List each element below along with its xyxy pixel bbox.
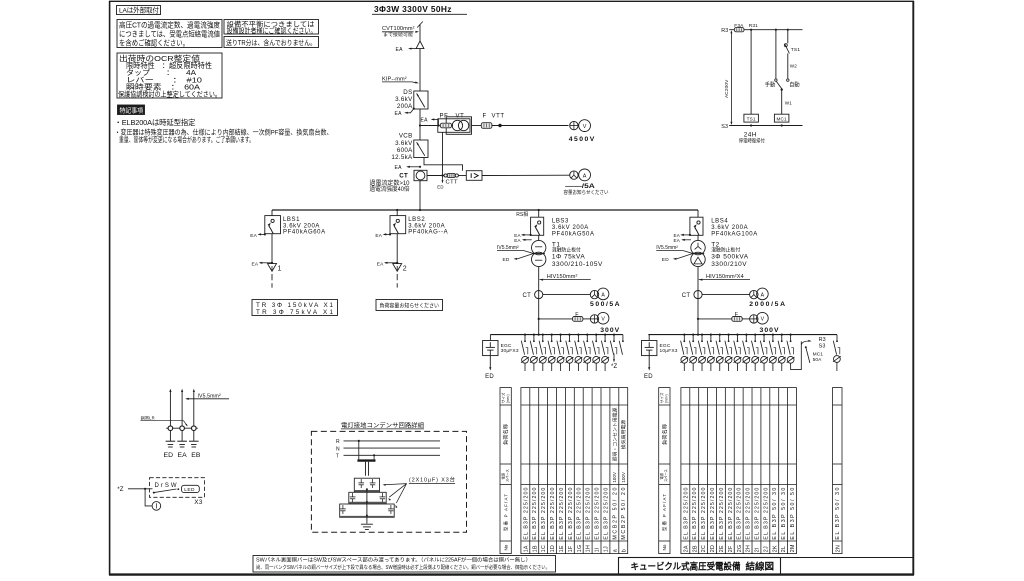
svg-text:*Z: *Z [611, 364, 618, 370]
svg-text:MCB2P 50/ 20: MCB2P 50/ 20 [621, 488, 627, 540]
svg-text:高圧CTの過電流定数、過電流強度: 高圧CTの過電流定数、過電流強度 [119, 20, 220, 30]
heading: special notes (tokki jiko) [118, 105, 145, 115]
svg-text:T: T [336, 454, 339, 460]
note box: OCR settings at shipment [117, 53, 222, 98]
svg-text:電灯接地コンデンサ回路詳細: 電灯接地コンデンサ回路詳細 [341, 421, 424, 429]
svg-text:2H: 2H [746, 545, 752, 552]
svg-text:MC1: MC1 [776, 116, 787, 121]
svg-text:LAは外部取付: LAは外部取付 [119, 6, 159, 15]
svg-text:2I: 2I [755, 547, 761, 552]
svg-text:送りTR分は、含んでおりません。: 送りTR分は、含んでおりません。 [226, 38, 316, 47]
svg-text:CT: CT [682, 293, 691, 299]
shield plate between windings [692, 253, 704, 255]
svg-text:EL B3P 225/200: EL B3P 225/200 [763, 488, 769, 540]
ELB branch breaker 1G [577, 334, 579, 336]
svg-text:200A: 200A [397, 103, 413, 110]
pointer arrows to capacitor groups [384, 484, 407, 485]
svg-text:EL B3P 225/200: EL B3P 225/200 [577, 488, 583, 540]
svg-text:10µFX3: 10µFX3 [660, 348, 678, 354]
svg-text:TS1: TS1 [747, 116, 756, 121]
svg-text:MCB2P 50/ 20: MCB2P 50/ 20 [612, 488, 618, 540]
ammeter selector switch [590, 290, 598, 298]
capacitor group 2 [349, 492, 386, 503]
wire: bus drop to LBS1 [271, 210, 273, 216]
svg-text:につきましては、受電点短絡電流値: につきましては、受電点短絡電流値 [119, 29, 220, 39]
svg-text:負荷名称: 負荷名称 [660, 424, 668, 445]
svg-text:W1: W1 [785, 101, 792, 106]
svg-text:N: N [336, 446, 340, 452]
svg-text:3.6kV 200A: 3.6kV 200A [408, 223, 445, 229]
earth ED below CTT junction [442, 176, 444, 182]
ELB branch breaker 2A [683, 334, 685, 336]
svg-text:2F: 2F [728, 545, 734, 552]
svg-text:CT: CT [399, 173, 408, 180]
schedule grid [521, 388, 628, 554]
wire: CT to ammeter [702, 294, 750, 296]
svg-text:1E: 1E [559, 545, 565, 552]
svg-text:A: A [583, 173, 587, 179]
svg-text:2C: 2C [701, 545, 707, 552]
svg-text:1H: 1H [586, 545, 592, 552]
earth arrow EA below VCB [419, 166, 421, 168]
load break switch LBS1 3.6kV 200A PF40kAG60A [265, 216, 281, 234]
svg-text:A: A [601, 292, 605, 298]
contactor MC1 coil [774, 114, 789, 122]
disconnector DS 3.6kV 200A [414, 91, 428, 109]
timer TS1 coil [744, 114, 759, 122]
earth ED below EGC [489, 356, 491, 369]
cable continuation dashes 2 [396, 274, 398, 280]
svg-text:2: 2 [403, 266, 407, 273]
note box: advise load capacity [376, 300, 443, 311]
fuse F and voltage test terminal VTT [472, 125, 482, 127]
svg-text:12.5kA: 12.5kA [391, 154, 413, 161]
svg-text:EA: EA [395, 165, 403, 171]
svg-text:設備設計者様にご確認ください。: 設備設計者様にご確認ください。 [227, 26, 317, 35]
svg-text:100V: 100V [612, 472, 617, 483]
current transformer CT for T2 [694, 291, 702, 299]
note box: LA external mounting [117, 6, 161, 15]
earthing capacitor EGC 30&#181;FX3 [483, 341, 498, 356]
svg-text:2L: 2L [781, 546, 787, 552]
svg-text:HIV150mm²: HIV150mm² [547, 274, 578, 280]
svg-text:3.6kV 200A: 3.6kV 200A [711, 225, 748, 231]
wire: tap to fuse F [698, 318, 732, 320]
MCB branch a (lighting/outlet) [613, 334, 615, 336]
timer contact TS1 [787, 29, 789, 31]
ammeter A ---/5A [579, 169, 591, 181]
wire: bus drop to LBS3 [538, 210, 540, 217]
svg-text:LED: LED [184, 487, 195, 493]
wire: DS to VCB [419, 109, 421, 140]
earth riser bars ED EA EB with IV5.5mm2 [166, 427, 198, 429]
svg-text:VCB: VCB [399, 133, 413, 140]
svg-text:EB: EB [191, 452, 201, 459]
ELB branch breaker 1A [524, 334, 526, 336]
wire: capacitor neutral to ground [366, 489, 368, 523]
svg-text:(mm²): (mm²) [665, 394, 669, 403]
svg-text:スペース: スペース [663, 469, 668, 482]
svg-text:S3: S3 [721, 124, 728, 130]
svg-text:EA: EA [421, 118, 429, 124]
signal lamp [145, 489, 152, 506]
svg-text:2B: 2B [692, 545, 698, 552]
svg-text:PF40kAG--A: PF40kAG--A [408, 230, 448, 236]
fuse F for voltmeter [732, 317, 742, 322]
connection arrow to control source R3 S3 [801, 341, 808, 345]
node: T2 feed [697, 334, 699, 336]
earth arrows EA at LBS4 [689, 234, 691, 236]
svg-text:EA: EA [395, 111, 403, 117]
transformer T2 3&#934; 500kVA 3300/210V [691, 240, 705, 254]
detail enclosure (dashed) [311, 431, 466, 532]
load break switch LBS4 3.6kV 200A PF40kAG100A [690, 217, 703, 235]
svg-text:300V: 300V [600, 327, 619, 334]
shield plate between windings [533, 253, 545, 255]
svg-text:2000/5A: 2000/5A [749, 301, 785, 308]
svg-text:VTT: VTT [492, 113, 505, 119]
wire: tap to fuse F [539, 318, 573, 320]
svg-text:手動: 手動 [765, 81, 776, 89]
svg-text:結線図: 結線図 [746, 560, 775, 571]
node: T1 feed [538, 334, 540, 336]
earth arrow EA at cable head [410, 48, 417, 50]
wire: T1 panel LV bus [490, 334, 623, 336]
svg-text:2K: 2K [772, 545, 778, 552]
load break switch LBS2 3.6kV 200A PF40kAG--A [390, 216, 406, 234]
note box: equipment unbalance [224, 20, 319, 35]
wire: LBS4 to T2 [697, 235, 699, 240]
ELB branch breaker 1I [595, 334, 597, 336]
node: DrSW feed [144, 488, 146, 490]
svg-text:ED: ED [164, 452, 174, 459]
capacitor group 1 (2x10uF x3) [354, 478, 379, 491]
svg-text:・変圧器は特殊変圧器の為、仕様により内部結線、一次側PF容量: ・変圧器は特殊変圧器の為、仕様により内部結線、一次側PF容量、換気扇台数、 [115, 128, 333, 137]
node: voltmeter tap [697, 318, 699, 320]
schedule grid [681, 388, 797, 554]
ELB branch breaker 2H [745, 334, 747, 336]
earth ED at shield plate [517, 254, 533, 259]
ground symbol of capacitor bank [361, 523, 373, 525]
door switch DrSW with LED unit X3 [150, 478, 205, 498]
svg-text:換気扇用電源: 換気扇用電源 [620, 419, 627, 449]
svg-text:負荷容量お知らせください: 負荷容量お知らせください [380, 301, 440, 309]
svg-text:3Φ3W 3300V 50Hz: 3Φ3W 3300V 50Hz [374, 4, 452, 14]
svg-text:AC200V: AC200V [724, 79, 730, 98]
note box: HV CT overcurrent confirmation [117, 20, 222, 48]
svg-text:LBS4: LBS4 [711, 219, 728, 225]
svg-text:EA: EA [178, 452, 188, 459]
voltmeter selector switch [750, 315, 758, 323]
svg-text:2M: 2M [790, 544, 796, 552]
svg-text:50A: 50A [813, 357, 823, 363]
ELB branch breaker 1F [568, 334, 570, 336]
earth arrow EA at PF-VT branch [437, 124, 439, 126]
wire: T2 panel LV bus [648, 334, 837, 336]
svg-text:ED: ED [503, 257, 510, 263]
wire: CT to main bus [419, 181, 421, 211]
wires to capacitor bank bus [358, 441, 360, 460]
wire: LBS1 to cable head 1 [271, 234, 273, 263]
svg-text:b: b [621, 549, 627, 552]
svg-text:過電流定数>10: 過電流定数>10 [370, 179, 411, 187]
svg-text:EL B3P 225/200: EL B3P 225/200 [728, 488, 734, 540]
vacuum circuit breaker VCB 3.6kV 600A 12.5kA [414, 140, 428, 158]
schedule grid [833, 388, 843, 554]
svg-text:サイズ: サイズ [659, 392, 664, 403]
ELB branch breaker 2D [710, 334, 712, 336]
wire: selector to contactor coil MC1 [781, 90, 783, 115]
svg-text:EL B3P 225/200: EL B3P 225/200 [746, 488, 752, 540]
svg-text:1I: 1I [595, 547, 601, 552]
svg-text:容量お知らせください: 容量お知らせください [564, 188, 609, 196]
svg-text:EL B3P 225/200: EL B3P 225/200 [737, 488, 743, 540]
svg-text:自動: 自動 [789, 81, 800, 89]
wire: rail to manual contact [775, 29, 777, 31]
earth arrow EA at LBS1 [264, 233, 266, 235]
node: voltmeter tap [538, 318, 540, 320]
svg-text:EL B3P 225/200: EL B3P 225/200 [710, 488, 716, 540]
svg-text:保護協調検討の上整定してください。: 保護協調検討の上整定してください。 [118, 90, 221, 99]
svg-text:100V: 100V [621, 472, 626, 483]
svg-text:X3: X3 [194, 499, 203, 506]
svg-text:3.6kV 200A: 3.6kV 200A [552, 225, 589, 231]
transformer T1 1&#934; 75kVA 3300/210-105V [532, 240, 546, 254]
ELB branch breaker 1J [604, 334, 606, 336]
wire: LBS3 to T1 [538, 235, 540, 240]
ELB branch breaker 2K [772, 334, 774, 336]
svg-text:A: A [761, 292, 765, 298]
svg-text:スペース: スペース [504, 469, 509, 482]
cable head 1 (outgoing) [268, 264, 277, 272]
svg-text:1B: 1B [532, 545, 538, 552]
svg-text:SWパネル裏面銅バーはSW及びSWスペース部のみ渡ってありま: SWパネル裏面銅バーはSW及びSWスペース部のみ渡ってあります。（パネルに225… [256, 556, 531, 564]
fuse F for voltmeter [573, 317, 583, 322]
svg-text:EL B3P 225/200: EL B3P 225/200 [719, 488, 725, 540]
earth arrows EA at LBS3 [530, 234, 532, 236]
svg-text:3300/210V: 3300/210V [711, 261, 747, 268]
svg-text:を含めご確認ください。: を含めご確認ください。 [119, 37, 189, 47]
svg-text:MC1: MC1 [813, 352, 824, 358]
power fuse PF with voltage transformer VT [438, 119, 470, 133]
svg-text:EA: EA [396, 47, 404, 53]
wire: CT secondary to CTT [427, 175, 444, 177]
arrow to lighting circuit *Z [613, 354, 615, 361]
svg-text:EL B3P 225/200: EL B3P 225/200 [692, 488, 698, 540]
svg-text:30µFX3: 30µFX3 [501, 348, 519, 354]
svg-text:V: V [601, 317, 605, 323]
svg-text:1D: 1D [550, 545, 556, 552]
svg-text:EA: EA [377, 261, 384, 267]
svg-text:1F: 1F [568, 545, 574, 552]
ammeter selector switch [750, 290, 758, 298]
svg-text:*Z: *Z [117, 486, 124, 493]
wire: VTT to voltmeter [492, 125, 569, 127]
svg-text:停電時復帰付: 停電時復帰付 [739, 137, 765, 144]
node: LBS2 tap [396, 209, 398, 211]
svg-text:W2: W2 [790, 64, 797, 69]
svg-text:HIV150mm²X4: HIV150mm²X4 [706, 274, 744, 280]
current transformer CT for T1 [535, 291, 543, 299]
svg-text:EL B3P 225/200: EL B3P 225/200 [523, 488, 529, 540]
magnetic contactor MC1 50A contact [805, 346, 807, 348]
note box: outgoing TR not included [224, 37, 319, 48]
svg-text:R: R [336, 439, 340, 445]
svg-text:キュービクル式高圧受電設備: キュービクル式高圧受電設備 [631, 560, 741, 571]
voltmeter changeover switch VS [570, 121, 578, 129]
ELB branch breaker 1B [533, 334, 535, 336]
svg-text:EL B3P 225/200: EL B3P 225/200 [683, 488, 689, 540]
cable label HIV150mm&#178; [540, 279, 544, 281]
svg-text:混触防止板付: 混触防止板付 [711, 246, 740, 254]
svg-text:EL B3P 50/ 30: EL B3P 50/ 30 [835, 488, 841, 540]
node T tap [373, 454, 375, 456]
svg-text:2A: 2A [683, 545, 689, 552]
svg-text:(mm²): (mm²) [506, 394, 510, 403]
ELB branch breaker 2C [701, 334, 703, 336]
svg-text:CTT: CTT [446, 180, 459, 186]
node on voltmeter wire [498, 124, 501, 127]
svg-text:PF40kAG60A: PF40kAG60A [283, 230, 326, 236]
svg-text:型番 P AF/AT: 型番 P AF/AT [502, 494, 509, 531]
svg-text:300V: 300V [760, 327, 779, 334]
main 3.3kV bus [272, 209, 698, 211]
note box: SW panel copper bar [253, 556, 556, 573]
ammeter A 2000/5A [757, 288, 769, 300]
note box: TR capacities [252, 300, 338, 316]
voltmeter selector switch [590, 315, 598, 323]
svg-text:3.6kV: 3.6kV [395, 96, 413, 103]
svg-text:EL B3P 225/200: EL B3P 225/200 [568, 488, 574, 540]
svg-text:VT: VT [456, 113, 465, 119]
svg-text:ED: ED [485, 374, 494, 380]
ELB branch breaker 1C [542, 334, 544, 336]
schedule header column [500, 388, 511, 554]
svg-text:EA: EA [252, 261, 259, 267]
svg-text:3.6kV 200A: 3.6kV 200A [283, 223, 320, 229]
svg-text:EL B3P 225/200: EL B3P 225/200 [541, 488, 547, 540]
svg-text:2J: 2J [763, 546, 769, 552]
svg-text:R3: R3 [721, 28, 728, 34]
ELB branch breaker 1D [551, 334, 553, 336]
svg-text:CT: CT [523, 293, 532, 299]
svg-text:V: V [761, 317, 765, 323]
wire: R31 to timer TS1 coil [750, 30, 752, 115]
earthing capacitor EGC 10&#181;FX3 [642, 341, 657, 356]
svg-text:PF40kAG50A: PF40kAG50A [552, 231, 595, 237]
svg-text:R31: R31 [749, 23, 758, 29]
svg-text:EL B3P 225/200: EL B3P 225/200 [603, 488, 609, 540]
wire: CT to ammeter [543, 294, 591, 296]
voltage span arrow AC200V [730, 32, 732, 124]
cable continuation dashes 1 [271, 274, 273, 280]
MCB branch b (fan) [622, 335, 624, 342]
ELB branch breaker 2J [763, 334, 765, 336]
svg-text:サイズ: サイズ [500, 392, 505, 403]
svg-text:V: V [583, 124, 587, 130]
svg-text:型番 P AF/AT: 型番 P AF/AT [661, 494, 668, 531]
svg-text:EL B3P 225/200: EL B3P 225/200 [595, 488, 601, 540]
node: main line to bus [419, 209, 421, 211]
svg-text:EL B3P 225/200: EL B3P 225/200 [701, 488, 707, 540]
wire: bus to EGC (T2) [648, 335, 650, 341]
svg-text:1G: 1G [577, 545, 583, 552]
node R tap [358, 440, 360, 442]
svg-text:2N: 2N [835, 545, 841, 552]
svg-text:3.6kV: 3.6kV [395, 140, 413, 147]
svg-text:過電流強度40倍: 過電流強度40倍 [370, 185, 410, 193]
overcurrent relay OCR I> [466, 171, 482, 181]
svg-text:1J: 1J [604, 546, 610, 552]
wire: OCR to ammeter [482, 174, 570, 176]
incoming supply stub [419, 24, 421, 41]
svg-text:PF40kAG100A: PF40kAG100A [711, 231, 758, 237]
wire: bus drop to LBS2 [396, 210, 398, 216]
svg-text:No: No [503, 544, 508, 550]
earth arrow EA at DS [413, 108, 415, 110]
ammeter A 500/5A [597, 288, 609, 300]
wire: T1 secondary down to panel bus [538, 267, 540, 335]
svg-text:特記事項: 特記事項 [120, 105, 144, 114]
ELB branch breaker 2E [719, 334, 721, 336]
svg-text:瞬時要素 ： 60A: 瞬時要素 ： 60A [126, 83, 200, 92]
svg-text:照明・コンセント用電源: 照明・コンセント用電源 [611, 407, 618, 461]
voltmeter V 4500V [579, 120, 591, 132]
cable head 2 (outgoing) [393, 264, 402, 272]
svg-text:No: No [662, 544, 667, 550]
svg-text:EL B3P 225/200: EL B3P 225/200 [559, 488, 565, 540]
svg-text:EL B3P 225/200: EL B3P 225/200 [586, 488, 592, 540]
voltmeter V 300V [757, 312, 769, 324]
svg-text:ED: ED [437, 184, 443, 189]
svg-text:負荷名称: 負荷名称 [502, 424, 510, 445]
current transformer CT ratio >10 40x [414, 170, 427, 180]
svg-text:(2X10µF) X3台: (2X10µF) X3台 [409, 476, 455, 484]
svg-text:F: F [483, 113, 487, 119]
svg-text:重量、筐体等が変更になる場合があります。ご了承願います。: 重量、筐体等が変更になる場合があります。ご了承願います。 [119, 135, 254, 144]
svg-text:3Φ 500kVA: 3Φ 500kVA [711, 254, 749, 261]
ELB branch breaker 2M [790, 334, 792, 336]
svg-text:a: a [612, 549, 618, 552]
svg-text:2D: 2D [710, 545, 716, 552]
svg-text:尚、同一バンクSWパネルの銅バーサイズが上下段で異なる場合、: 尚、同一バンクSWパネルの銅バーサイズが上下段で異なる場合、SW増設時は必ず上段… [256, 564, 550, 571]
svg-text:ED: ED [644, 374, 653, 380]
ELB branch breaker 2F [728, 334, 730, 336]
capacitor group 3 [340, 504, 395, 517]
svg-text:1C: 1C [541, 545, 547, 552]
node: LBS3 tap [538, 209, 540, 211]
svg-text:まで接続可能: まで接続可能 [383, 31, 413, 38]
svg-text:EL B3P 225/200: EL B3P 225/200 [532, 488, 538, 540]
svg-text:LBS2: LBS2 [408, 217, 425, 223]
svg-text:2G: 2G [737, 545, 743, 552]
earth ED below EGC [648, 356, 650, 369]
node: CTT tap junction [441, 174, 443, 176]
ELB branch breaker 2B [692, 334, 694, 336]
svg-text:EA: EA [674, 238, 681, 243]
svg-text:R3: R3 [819, 337, 826, 343]
ELB branch breaker 2I [754, 334, 756, 336]
svg-text:TS1: TS1 [791, 47, 801, 53]
ELB branch breaker 1E [560, 334, 562, 336]
svg-text:F: F [575, 312, 579, 318]
schedule header column [659, 388, 670, 554]
svg-text:DrSW: DrSW [155, 483, 177, 489]
wire: bus to EGC (T1) [489, 335, 491, 341]
svg-text:3300/210-105V: 3300/210-105V [552, 261, 603, 268]
ELB branch breaker 2N [836, 335, 838, 342]
wire: VCB to overcurrent relay [424, 158, 463, 171]
